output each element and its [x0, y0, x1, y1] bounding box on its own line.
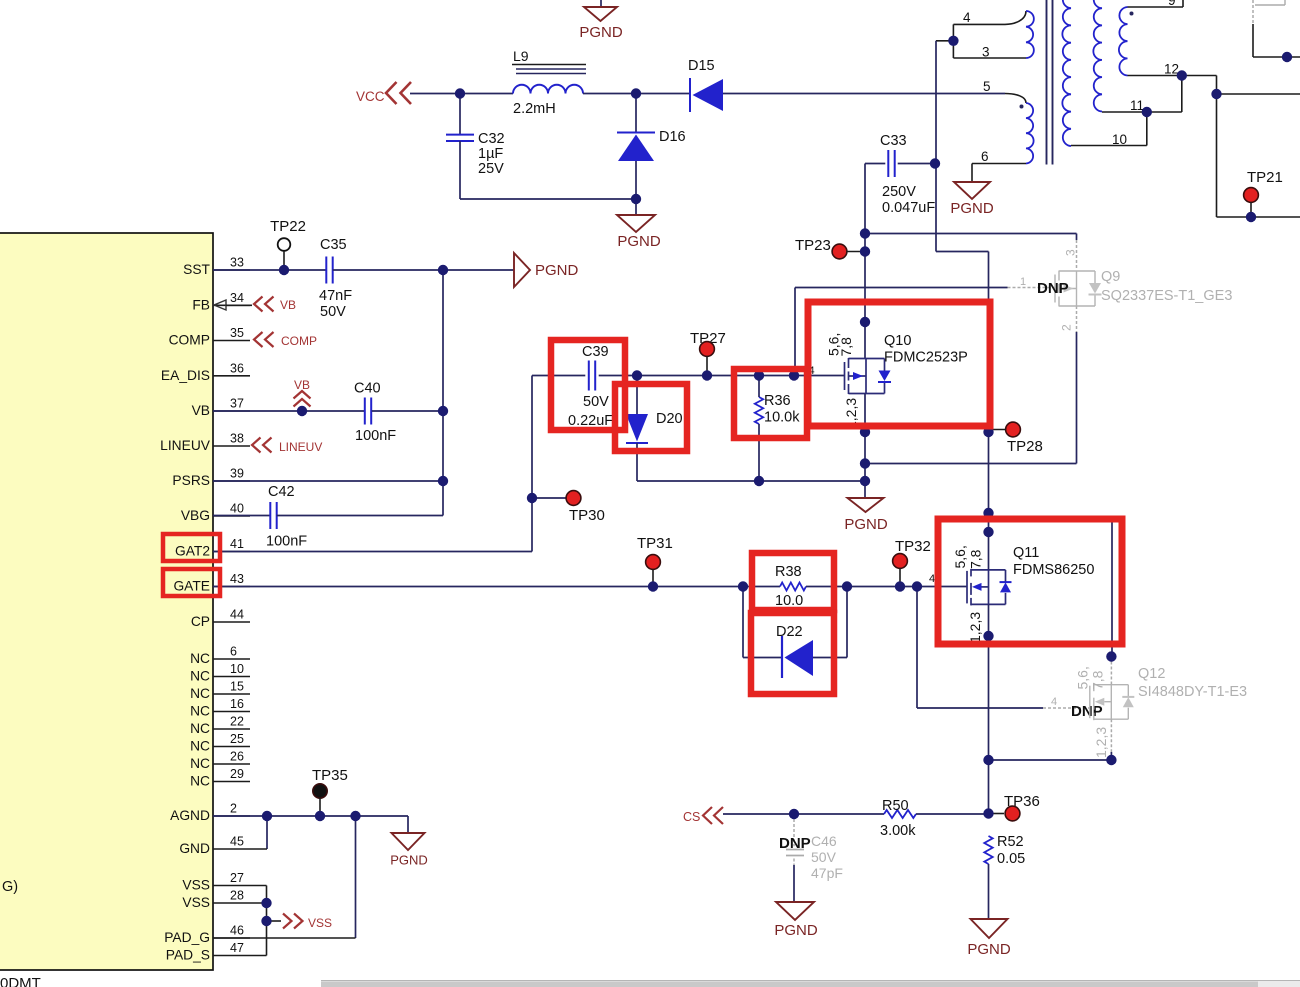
svg-text:27: 27 [230, 871, 244, 885]
svg-text:26: 26 [230, 750, 244, 764]
svg-text:10.0: 10.0 [775, 593, 803, 609]
svg-text:10.0k: 10.0k [764, 410, 800, 426]
svg-text:0.047uF: 0.047uF [882, 200, 935, 216]
svg-text:TP30: TP30 [569, 507, 605, 524]
svg-text:FB: FB [192, 298, 210, 313]
svg-text:41: 41 [230, 537, 244, 551]
svg-text:C32: C32 [478, 131, 505, 147]
svg-text:R38: R38 [775, 564, 802, 580]
svg-text:GND: GND [179, 841, 210, 856]
svg-text:2.2mH: 2.2mH [513, 101, 556, 117]
svg-text:DNP: DNP [1071, 703, 1103, 720]
svg-text:EA_DIS: EA_DIS [161, 368, 210, 383]
svg-text:D16: D16 [659, 129, 686, 145]
svg-text:4: 4 [963, 10, 971, 25]
svg-text:5,6,: 5,6, [1075, 666, 1091, 689]
svg-text:47pF: 47pF [811, 865, 843, 881]
svg-text:COMP: COMP [169, 333, 210, 348]
svg-text:D15: D15 [688, 58, 715, 74]
svg-text:NC: NC [190, 669, 210, 684]
svg-text:22: 22 [230, 715, 244, 729]
svg-text:47nF: 47nF [319, 288, 352, 304]
svg-text:33: 33 [230, 256, 244, 270]
svg-text:36: 36 [230, 361, 244, 375]
svg-text:7,8: 7,8 [1090, 670, 1106, 690]
svg-text:Q9: Q9 [1101, 269, 1120, 285]
svg-text:R52: R52 [997, 834, 1024, 850]
svg-text:D22: D22 [776, 624, 803, 640]
svg-text:C35: C35 [320, 237, 347, 253]
svg-text:10: 10 [230, 662, 244, 676]
svg-text:16: 16 [230, 697, 244, 711]
svg-text:G): G) [2, 879, 18, 895]
svg-text:PGND: PGND [967, 941, 1011, 958]
svg-text:1µF: 1µF [478, 146, 503, 162]
svg-text:NC: NC [190, 739, 210, 754]
svg-text:TP23: TP23 [795, 237, 831, 254]
svg-text:39: 39 [230, 467, 244, 481]
svg-text:46: 46 [230, 924, 244, 938]
svg-text:35: 35 [230, 326, 244, 340]
svg-text:NC: NC [190, 756, 210, 771]
svg-text:4: 4 [1051, 696, 1057, 708]
svg-text:29: 29 [230, 767, 244, 781]
svg-text:5: 5 [983, 79, 991, 94]
svg-text:L9: L9 [513, 48, 529, 64]
svg-text:VSS: VSS [308, 916, 332, 930]
svg-text:FDMC2523P: FDMC2523P [884, 350, 968, 366]
svg-text:NC: NC [190, 704, 210, 719]
svg-text:Q10: Q10 [884, 333, 911, 349]
svg-text:0.22uF: 0.22uF [568, 413, 613, 429]
svg-text:1,2,3: 1,2,3 [1093, 727, 1109, 758]
svg-text:SQ2337ES-T1_GE3: SQ2337ES-T1_GE3 [1101, 288, 1232, 304]
svg-text:3.00k: 3.00k [880, 823, 916, 839]
svg-text:7,8: 7,8 [838, 337, 854, 357]
svg-text:250V: 250V [882, 184, 916, 200]
svg-text:28: 28 [230, 889, 244, 903]
svg-text:GATE: GATE [173, 579, 210, 594]
svg-text:2: 2 [230, 802, 237, 816]
svg-text:GAT2: GAT2 [175, 544, 210, 559]
svg-text:3: 3 [1064, 249, 1078, 256]
svg-text:LINEUV: LINEUV [279, 440, 322, 454]
svg-text:15: 15 [230, 680, 244, 694]
svg-text:PAD_S: PAD_S [166, 948, 210, 963]
svg-text:0DMT: 0DMT [0, 975, 41, 987]
svg-text:1,2,3: 1,2,3 [967, 612, 983, 643]
svg-text:7,8: 7,8 [968, 549, 984, 569]
svg-text:Q11: Q11 [1013, 545, 1039, 561]
svg-text:FDMS86250: FDMS86250 [1013, 562, 1094, 578]
svg-text:10: 10 [1112, 132, 1127, 147]
svg-text:25: 25 [230, 732, 244, 746]
svg-text:1: 1 [1020, 276, 1026, 288]
svg-text:R36: R36 [764, 393, 791, 409]
svg-text:SI4848DY-T1-E3: SI4848DY-T1-E3 [1138, 684, 1247, 700]
svg-text:VBG: VBG [181, 508, 210, 523]
svg-text:38: 38 [230, 432, 244, 446]
svg-text:NC: NC [190, 721, 210, 736]
svg-text:45: 45 [230, 835, 244, 849]
svg-text:NC: NC [190, 686, 210, 701]
svg-text:PGND: PGND [774, 922, 818, 939]
svg-text:D20: D20 [656, 411, 683, 427]
svg-text:PGND: PGND [844, 516, 888, 533]
svg-text:25V: 25V [478, 161, 504, 177]
svg-text:VSS: VSS [182, 895, 210, 910]
svg-text:TP22: TP22 [270, 218, 306, 235]
svg-text:34: 34 [230, 291, 244, 305]
svg-text:C40: C40 [354, 381, 381, 397]
svg-text:VSS: VSS [182, 878, 210, 893]
svg-text:LINEUV: LINEUV [160, 438, 211, 453]
svg-text:5,6,: 5,6, [952, 545, 968, 568]
svg-text:PGND: PGND [390, 853, 428, 868]
svg-text:NC: NC [190, 774, 210, 789]
svg-text:VCC: VCC [356, 89, 385, 104]
svg-text:PGND: PGND [535, 262, 579, 279]
svg-text:50V: 50V [583, 394, 609, 410]
svg-text:4: 4 [929, 573, 935, 585]
svg-text:PGND: PGND [950, 200, 994, 217]
svg-text:C46: C46 [811, 833, 837, 849]
svg-text:40: 40 [230, 502, 244, 516]
svg-text:R50: R50 [882, 798, 909, 814]
svg-text:CS: CS [683, 810, 700, 824]
svg-text:PGND: PGND [617, 233, 661, 250]
svg-text:37: 37 [230, 397, 244, 411]
svg-text:100nF: 100nF [355, 428, 396, 444]
svg-text:TP35: TP35 [312, 767, 348, 784]
svg-text:NC: NC [190, 651, 210, 666]
svg-text:TP32: TP32 [895, 538, 931, 555]
svg-text:6: 6 [981, 149, 989, 164]
svg-text:VB: VB [280, 298, 296, 312]
svg-text:2: 2 [1060, 324, 1074, 331]
svg-text:9: 9 [1168, 0, 1176, 8]
svg-text:PAD_G: PAD_G [164, 930, 210, 945]
svg-text:0.05: 0.05 [997, 851, 1025, 867]
svg-text:DNP: DNP [779, 835, 811, 852]
svg-text:100nF: 100nF [266, 534, 307, 550]
svg-text:C42: C42 [268, 484, 295, 500]
svg-text:DNP: DNP [1037, 280, 1069, 297]
svg-text:TP21: TP21 [1247, 169, 1283, 186]
svg-text:Q12: Q12 [1138, 666, 1165, 682]
svg-text:C33: C33 [880, 133, 907, 149]
svg-text:50V: 50V [320, 304, 346, 320]
svg-text:43: 43 [230, 572, 244, 586]
svg-text:CP: CP [191, 614, 210, 629]
svg-text:COMP: COMP [281, 334, 317, 348]
svg-text:PGND: PGND [579, 24, 623, 41]
svg-text:6: 6 [230, 645, 237, 659]
svg-text:VB: VB [192, 403, 210, 418]
svg-text:SST: SST [183, 262, 210, 277]
svg-text:C39: C39 [582, 344, 609, 360]
svg-text:44: 44 [230, 608, 244, 622]
svg-text:47: 47 [230, 941, 244, 955]
svg-text:TP28: TP28 [1007, 438, 1043, 455]
svg-text:AGND: AGND [170, 808, 210, 823]
svg-text:PSRS: PSRS [172, 473, 210, 488]
svg-text:TP31: TP31 [637, 535, 673, 552]
svg-text:50V: 50V [811, 849, 837, 865]
